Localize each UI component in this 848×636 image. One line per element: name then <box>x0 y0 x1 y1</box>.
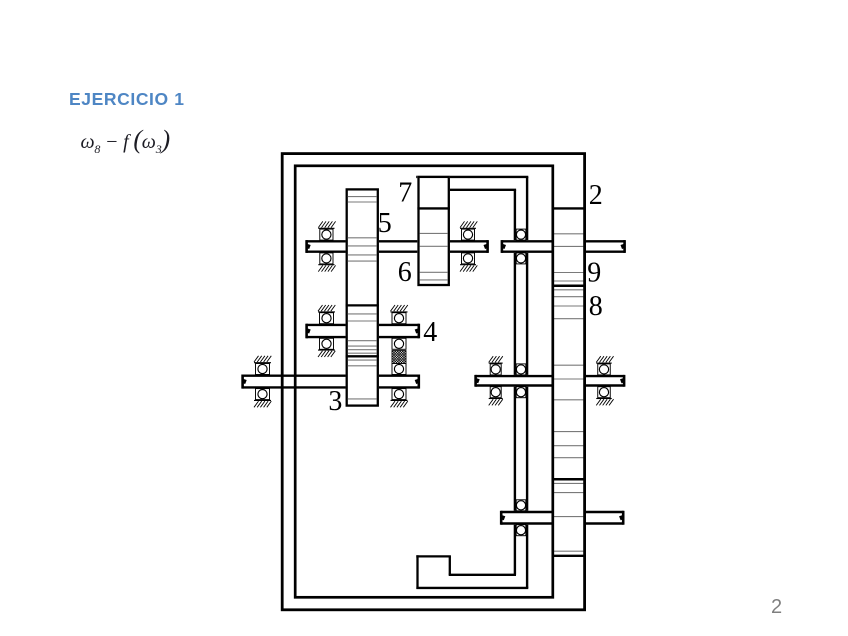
ring gear 2 bottom edge <box>552 207 586 209</box>
arm foot outer bottom <box>416 587 528 589</box>
left column gear tooth lines <box>348 197 377 399</box>
svg-text:6: 6 <box>398 257 412 288</box>
bearing upper shaft in arm <box>516 229 526 264</box>
bearing on shaft 4 left (grounded) <box>318 305 335 357</box>
gear4/gear3 divider <box>346 355 379 357</box>
bearing shaft A in arm <box>516 364 526 398</box>
gear7/gear6 divider <box>417 207 450 209</box>
gear9/gear8 boundary <box>552 285 586 288</box>
shaft A outer stub <box>585 375 625 387</box>
svg-text:7: 7 <box>398 178 412 209</box>
gear 7 and gear 6 column <box>417 176 450 287</box>
label 7 (gear 7) <box>398 178 412 209</box>
svg-text:4: 4 <box>423 317 437 348</box>
cavity thick boundary lower <box>552 555 586 557</box>
svg-text:3: 3 <box>328 386 342 417</box>
shaft 9 outer stub <box>585 240 625 253</box>
shaft of gear 4 left segment <box>306 324 348 339</box>
cavity thick boundary upper <box>552 478 586 481</box>
svg-text:9: 9 <box>587 257 601 288</box>
arm inner top bar <box>449 189 516 191</box>
bearing on shaft 4 right (grounded) <box>391 305 408 349</box>
label 2 (ring gear 2) <box>589 180 603 211</box>
formula omega_8 = f(omega_3) <box>81 125 170 157</box>
arm outer right vertical <box>526 177 528 588</box>
upper shaft right of gear 6 with break <box>447 240 488 253</box>
gear 5 body (upper part of left column) <box>346 188 380 407</box>
arm foot inner bottom <box>449 574 516 576</box>
bearing on shaft 3 far left (grounded) <box>254 356 271 408</box>
title <box>69 89 185 110</box>
shaft of gear 5 (upper) left segment <box>306 240 348 253</box>
bearing on shaft A left (grounded) <box>489 356 503 405</box>
housing inner wall <box>295 166 553 598</box>
label 9 (gear 9) <box>587 257 601 288</box>
label 6 (gear 6) <box>398 257 412 288</box>
gear 6 tooth lines <box>420 233 448 280</box>
arm outer top bar <box>416 176 528 178</box>
housing outer wall <box>282 154 584 610</box>
bearing shaft B in arm <box>516 500 526 536</box>
svg-text:8: 8 <box>589 291 603 322</box>
coaxial shaft of gear 9 (inside housing) <box>502 240 553 253</box>
bearing on upper shaft center (grounded) <box>460 221 477 271</box>
arm inner right vertical <box>514 190 516 575</box>
svg-text:5: 5 <box>378 208 392 239</box>
shaft 4 right segment with break <box>376 324 419 339</box>
ring gear lines lower <box>554 483 583 551</box>
lower right shaft A inner segment <box>475 375 553 387</box>
label 3 (gear 3) <box>328 386 342 417</box>
ring gear 9 lines <box>554 234 583 281</box>
ring gear lines middle <box>554 365 583 458</box>
arm foot step vertical <box>449 556 451 574</box>
arm foot cap top <box>416 555 451 557</box>
bearing on shaft 3 right <box>391 364 408 408</box>
page number <box>771 596 782 619</box>
crosshatched support block <box>380 351 419 365</box>
label 8 (gear 8) <box>589 291 603 322</box>
gear5/gear4 divider <box>346 304 379 306</box>
shaft 3 right segment with break <box>376 375 419 389</box>
bottom shaft B inner segment <box>501 511 553 525</box>
arm foot left vertical <box>416 555 418 589</box>
upper shaft between gears 5 and 6 <box>376 240 421 253</box>
ring gear 8 tooth lines <box>554 290 583 319</box>
bearing on upper shaft left (grounded) <box>318 221 335 271</box>
shaft B outer stub <box>585 511 624 525</box>
label 4 (gear 4) <box>423 317 437 348</box>
bearing on shaft A outside (grounded) <box>596 356 613 405</box>
input shaft 3 left segment <box>242 375 348 389</box>
label 5 (gear 5) <box>378 208 392 239</box>
svg-text:2: 2 <box>589 180 603 211</box>
